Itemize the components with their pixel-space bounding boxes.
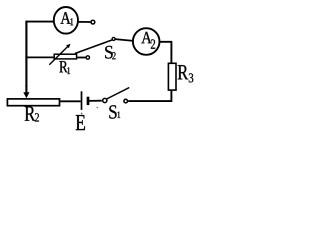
rheostat R2 body xyxy=(7,99,59,106)
open terminal after A1 xyxy=(91,20,95,24)
switch S2 xyxy=(75,37,115,59)
wire battery to R2 xyxy=(60,100,80,102)
switch S1 xyxy=(103,88,130,103)
battery E xyxy=(81,91,88,114)
wire A1 to terminal xyxy=(78,21,91,23)
wire A2 to R3 top xyxy=(160,42,172,64)
wire S1 to battery xyxy=(89,100,102,102)
label R1 xyxy=(59,61,70,74)
label S1 xyxy=(109,105,120,118)
stray mark xyxy=(96,107,98,109)
wire R3 bottom to S1 xyxy=(128,90,171,101)
ammeter A2 xyxy=(133,28,160,55)
label R3 xyxy=(178,65,194,82)
label S2 xyxy=(105,46,115,59)
wire top horizontal xyxy=(26,21,55,23)
wire R1 to S2 xyxy=(77,57,85,59)
resistor R3 xyxy=(168,63,176,90)
wire riser to R1 xyxy=(25,56,53,58)
rheostat R1 xyxy=(49,44,76,65)
wire S2 to A2 xyxy=(115,39,133,41)
R2 wiper arrow xyxy=(23,85,29,98)
label R2 xyxy=(25,106,39,121)
wire left vertical riser xyxy=(25,21,27,86)
label E xyxy=(76,115,85,130)
ammeter A1 xyxy=(54,7,78,34)
